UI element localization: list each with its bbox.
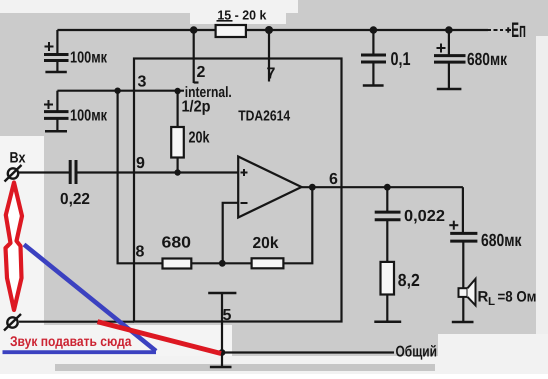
node pin2/supply <box>190 26 198 34</box>
wire pin2 drop <box>193 30 195 83</box>
node pin9/R1 <box>174 169 180 175</box>
svg-text:=8 Ом: =8 Ом <box>498 289 537 306</box>
op-amp plus input <box>241 172 248 174</box>
op-amp U1 triangle <box>238 157 301 218</box>
underline of 15-20k label <box>217 20 233 22</box>
supply arrow dashes and plus <box>487 27 511 32</box>
wire input from Vx terminal <box>19 171 70 173</box>
svg-text:6: 6 <box>329 171 338 188</box>
capacitor C1 100mk top lead <box>56 30 58 54</box>
node pin7/supply <box>265 26 273 34</box>
node pin3 branch <box>114 88 120 94</box>
svg-text:20k: 20k <box>189 129 210 146</box>
wire ground rail <box>222 351 394 353</box>
capacitor C6 0.022 plates <box>375 211 401 214</box>
terminal Vx top <box>5 165 22 182</box>
svg-text:2: 2 <box>197 64 206 81</box>
capacitor C6 0.022 lead <box>386 187 388 211</box>
svg-text:0,1: 0,1 <box>391 48 411 69</box>
svg-text:0,22: 0,22 <box>60 191 90 208</box>
wire pin5 to ground <box>221 293 223 367</box>
svg-text:Еп: Еп <box>511 19 526 42</box>
plus C1 <box>45 46 54 48</box>
wire feedback row <box>191 262 251 264</box>
svg-text:R: R <box>478 289 489 306</box>
svg-text:100мк: 100мк <box>70 108 108 125</box>
svg-text:100мк: 100мк <box>70 50 108 67</box>
node C3 <box>370 26 378 34</box>
wire feedback up to output <box>283 187 312 263</box>
plus signs <box>44 42 458 230</box>
annotation red diagonal <box>98 322 222 354</box>
op-amp minus input <box>241 202 248 204</box>
annotation red lightning arrow <box>6 183 23 311</box>
svg-text:20k: 20k <box>253 235 279 252</box>
capacitor C4 680mk lead <box>448 30 450 55</box>
svg-text:8: 8 <box>136 244 145 261</box>
IC box TDA2614 <box>134 59 342 322</box>
capacitor C5 0.22 plates <box>69 160 72 184</box>
resistor R2 680 body <box>163 259 192 269</box>
capacitor C3 0.1 lead <box>372 30 374 54</box>
speaker RL lead and bar <box>462 297 464 321</box>
node ground pin5 <box>219 349 226 356</box>
svg-text:Вх: Вх <box>10 150 27 167</box>
node C6 <box>384 184 391 191</box>
annotation blue underline <box>3 350 157 354</box>
node internal <box>174 88 180 94</box>
wire bottom terminal to box <box>19 321 134 323</box>
svg-text:680мк: 680мк <box>467 49 507 69</box>
svg-text:15 - 20 k: 15 - 20 k <box>217 8 267 23</box>
resistor R5 15-20k body <box>216 25 246 37</box>
terminal bottom <box>4 314 21 331</box>
wire output pin6 <box>302 186 463 188</box>
capacitor C2 100mk lead <box>56 91 58 111</box>
plus C7 <box>449 224 458 226</box>
wire pin9 to opamp <box>77 171 238 173</box>
svg-text:7: 7 <box>267 66 276 83</box>
svg-text:680: 680 <box>162 235 192 252</box>
capacitor C7 680mk output plates <box>450 232 477 235</box>
svg-text:Звук подавать сюда: Звук подавать сюда <box>10 333 132 349</box>
resistor R3 20k feedback body <box>252 258 284 268</box>
plus C2 <box>44 104 53 106</box>
svg-text:TDA2614: TDA2614 <box>238 109 290 125</box>
capacitor C2 100mk plates <box>44 110 69 113</box>
resistor R4 8.2 body <box>381 262 395 295</box>
wire branch pin3 to pin8 net <box>118 91 163 264</box>
svg-text:0,022: 0,022 <box>404 208 445 225</box>
wire to output cap <box>462 187 464 232</box>
capacitor C1 100mk plates <box>44 53 69 56</box>
wire top supply rail <box>57 29 488 31</box>
svg-text:8,2: 8,2 <box>398 270 420 290</box>
op-amp inverting input wire <box>223 203 239 263</box>
svg-text:9: 9 <box>136 155 145 172</box>
node C4 <box>445 26 453 34</box>
svg-text:L: L <box>488 296 495 308</box>
svg-text:Общий: Общий <box>396 344 438 361</box>
wire pin7 drop <box>268 30 270 82</box>
wire pin3 rail <box>57 90 184 92</box>
node R2/R3 <box>219 260 226 267</box>
capacitor C4 680mk plates <box>434 54 466 57</box>
svg-text:3: 3 <box>138 74 147 91</box>
node output <box>309 184 316 191</box>
svg-text:1/2p: 1/2p <box>182 99 211 116</box>
plus C4 <box>437 47 446 49</box>
speaker RL <box>459 279 476 306</box>
resistor R1 20k body <box>171 127 184 158</box>
capacitor C3 0.1 plates <box>361 54 386 57</box>
svg-text:680мк: 680мк <box>481 230 522 250</box>
resistor R1 20k vertical lead <box>177 91 179 127</box>
annotation blue diagonal <box>24 245 156 352</box>
pin5 top bar <box>208 292 236 295</box>
svg-text:5: 5 <box>223 307 232 324</box>
